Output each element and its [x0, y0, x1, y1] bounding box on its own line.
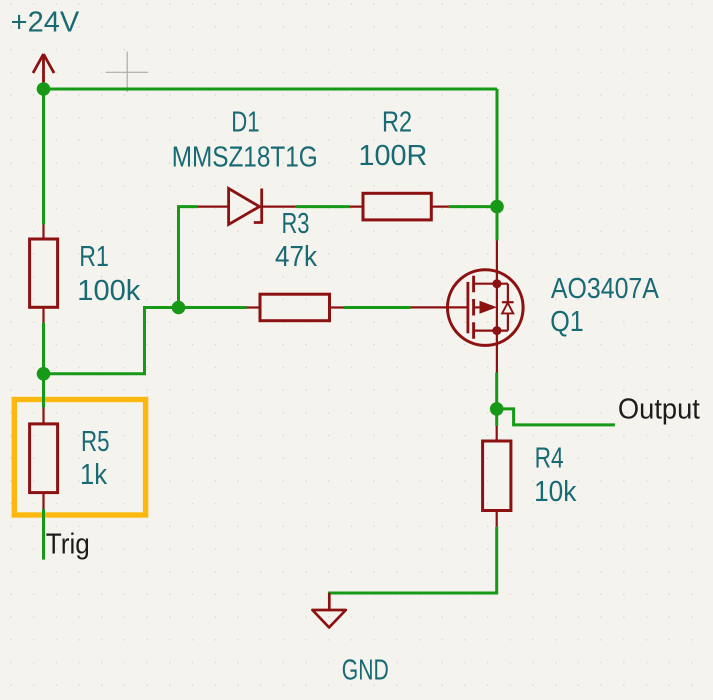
resistor R4 — [483, 426, 511, 527]
wire R2 to junction — [449, 205, 497, 208]
junction at R1/R5 node — [37, 367, 51, 381]
svg-text:47k: 47k — [275, 240, 318, 272]
svg-text:AO3407A: AO3407A — [551, 272, 659, 304]
wire D1 to R2 — [296, 205, 350, 208]
crosshair origin marker — [106, 52, 149, 92]
svg-text:D1: D1 — [231, 106, 259, 138]
junction at output node — [490, 402, 504, 416]
svg-text:R3: R3 — [282, 207, 310, 239]
diode D1 (zener) — [198, 189, 296, 225]
wire gate junction up to D1 — [179, 207, 198, 308]
label R3 — [282, 207, 310, 239]
svg-text:100R: 100R — [358, 139, 427, 171]
label Output — [618, 393, 700, 425]
label MMSZ18T1G — [172, 141, 318, 173]
label R2 — [382, 106, 412, 138]
svg-text:R2: R2 — [382, 106, 412, 138]
wire junction to gate net jog — [44, 308, 179, 374]
junction at +24V rail — [37, 82, 51, 96]
svg-text:MMSZ18T1G: MMSZ18T1G — [172, 141, 318, 173]
wire junction down to Q1 drain pin — [496, 206, 499, 241]
wire output step — [497, 409, 615, 425]
label 1k — [80, 458, 108, 490]
label 100k — [77, 274, 141, 306]
Q1 drain junction dot — [492, 279, 501, 288]
transistor Q1 PMOS — [411, 241, 524, 373]
selection highlight rectangle around R5 — [14, 400, 145, 516]
svg-text:+24V: +24V — [11, 5, 80, 37]
resistor R5 — [30, 408, 58, 510]
Q1 bulk arrow — [480, 301, 497, 314]
junction at gate net — [172, 301, 186, 315]
svg-text:Output: Output — [618, 393, 700, 425]
junction at R2 output node — [490, 200, 504, 214]
label R1 — [79, 240, 109, 272]
Q1 source junction dot — [492, 326, 501, 335]
wire gate junction to R3 — [179, 306, 247, 309]
wire +24V rail drop to R2 junction — [496, 89, 499, 206]
label D1 — [231, 106, 259, 138]
resistor R1 — [30, 225, 58, 323]
power symbol +24V arrow — [33, 54, 54, 89]
label 10k — [534, 475, 577, 507]
svg-text:GND: GND — [342, 654, 389, 686]
label 47k — [275, 240, 318, 272]
wire R5 top — [42, 374, 45, 408]
wire R3 to Q1 gate — [344, 306, 411, 309]
svg-text:1k: 1k — [80, 458, 108, 490]
ground symbol GND — [312, 593, 345, 627]
power label +24V — [11, 5, 80, 37]
wire left rail to R1 — [42, 89, 45, 225]
label 100R — [358, 139, 427, 171]
resistor R3 — [247, 294, 345, 321]
wire +24V rail horizontal — [44, 88, 498, 91]
svg-text:Trig: Trig — [46, 528, 90, 560]
power label GND — [342, 654, 389, 686]
wire Q1 source down to R4 — [495, 373, 498, 427]
label AO3407A — [551, 272, 659, 304]
svg-text:R5: R5 — [81, 425, 110, 457]
svg-text:R4: R4 — [535, 441, 564, 473]
svg-text:Q1: Q1 — [550, 305, 584, 337]
resistor R2 — [350, 193, 449, 220]
svg-text:100k: 100k — [77, 274, 141, 306]
svg-text:R1: R1 — [79, 240, 109, 272]
wire R5 bottom to Trig — [42, 509, 45, 560]
wire R4 bottom to GND run — [328, 527, 497, 593]
label Q1 — [550, 305, 584, 337]
svg-text:10k: 10k — [534, 475, 577, 507]
label Trig — [46, 528, 90, 560]
label R4 — [535, 441, 564, 473]
label R5 — [81, 425, 110, 457]
wire R1 bottom to junction — [42, 323, 45, 374]
